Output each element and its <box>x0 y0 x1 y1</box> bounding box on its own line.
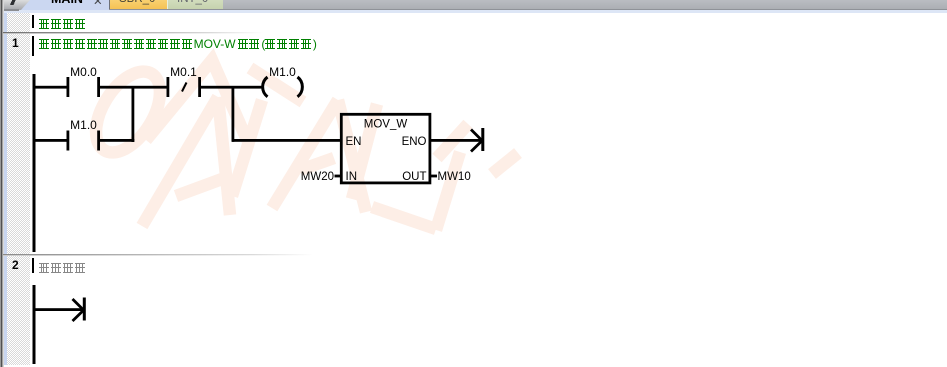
left window border <box>0 0 4 367</box>
watermark letter A (second) <box>272 100 366 212</box>
MAIN tab close X <box>93 0 107 8</box>
wire: junction down-leg to MOV_W EN input <box>232 139 340 142</box>
branch junction vertical wire <box>132 86 135 142</box>
branch wire: rail to contact M1.0 <box>34 139 67 142</box>
network 1 comment (green): 程序段注释启保停程序中加入MOV-W指令(传送指令) <box>39 38 317 52</box>
program comment 程序注释 (green) <box>39 16 87 34</box>
MAIN tab slanted left edge over gray scroll button <box>2 0 30 10</box>
network 2 comment placeholder 输入注释 (gray) <box>39 260 87 278</box>
network 1 number <box>12 36 30 50</box>
operand MW20 with IN pin stub <box>301 171 341 183</box>
operand MW10 with OUT pin stub <box>431 171 471 183</box>
tab bar bottom dark border <box>109 9 947 10</box>
svg-text:IN: IN <box>346 171 358 183</box>
network 2 comment cursor <box>32 258 35 273</box>
MAIN tab (selected, light blue) <box>20 0 109 10</box>
svg-text:EN: EN <box>346 136 362 148</box>
wire: M0.0 to M0.1 through branch junction <box>100 86 167 89</box>
contact M0.1 (normally closed) <box>167 65 202 97</box>
tab bar background (right gray area) <box>0 0 947 10</box>
program comment row cursor <box>32 15 35 29</box>
watermark letter E <box>372 124 518 230</box>
svg-text:M0.0: M0.0 <box>70 65 97 79</box>
branch wire: M1.0 to junction <box>100 139 134 142</box>
SBR_0 tab <box>109 0 167 9</box>
network 1 comment cursor <box>32 36 35 56</box>
watermark letter A <box>142 97 230 226</box>
network 1 left power rail <box>33 74 36 252</box>
MOV junction vertical wire <box>232 86 235 142</box>
svg-text:MW10: MW10 <box>438 171 471 183</box>
network 2 empty rung wire <box>34 308 82 311</box>
MAIN tab title <box>51 0 111 6</box>
svg-text:M1.0: M1.0 <box>70 118 97 132</box>
light blue line under tab bar <box>0 10 947 13</box>
wire: ENO output <box>431 139 482 142</box>
svg-text:OUT: OUT <box>402 171 426 183</box>
scroll button arrow glyph <box>9 0 16 5</box>
box MOV_W <box>341 114 430 183</box>
coil M1.0 <box>263 65 303 97</box>
contact M1.0 (branch) <box>67 118 101 151</box>
wire: rail to contact M0.0 <box>34 86 67 89</box>
svg-text:MOV_W: MOV_W <box>364 119 408 131</box>
wire: M0.1 to coil through MOV junction <box>201 86 262 89</box>
open rung arrow (network 1) <box>471 128 484 152</box>
network 2 left power rail <box>33 285 36 364</box>
watermark letter I <box>352 104 377 199</box>
contact M0.0 <box>67 65 101 97</box>
separator under program comment <box>3 32 263 34</box>
network 2 number <box>12 258 30 272</box>
svg-text:M1.0: M1.0 <box>269 65 296 79</box>
network number gutter (checkered) <box>7 13 31 366</box>
INT_0 tab <box>167 0 223 9</box>
svg-text:ENO: ENO <box>402 136 427 148</box>
left light blue strip <box>4 13 8 366</box>
open rung arrow (network 2) <box>73 298 86 322</box>
watermark letter T <box>146 60 303 196</box>
watermark letter D <box>83 61 173 164</box>
svg-text:MW20: MW20 <box>301 171 334 183</box>
separator above network 2 <box>3 254 313 256</box>
svg-text:M0.1: M0.1 <box>170 65 197 79</box>
